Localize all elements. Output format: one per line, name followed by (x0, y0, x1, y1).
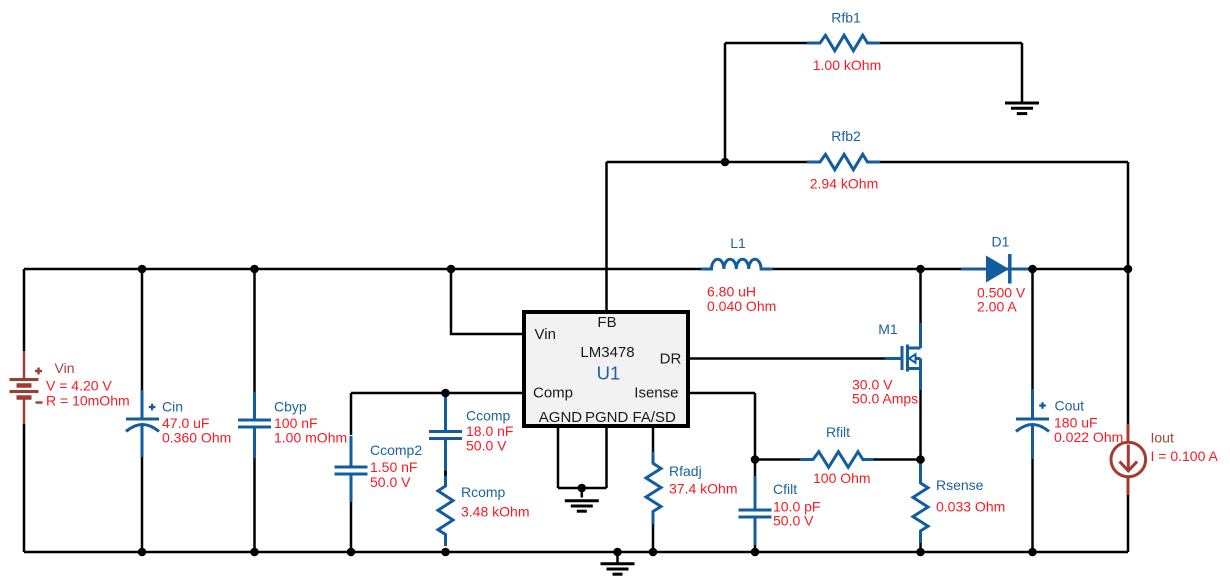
svg-text:Rfb1: Rfb1 (831, 10, 861, 26)
svg-text:0.040 Ohm: 0.040 Ohm (707, 298, 776, 314)
svg-text:Rfb2: Rfb2 (831, 128, 861, 144)
svg-text:DR: DR (660, 351, 682, 368)
svg-text:Rcomp: Rcomp (461, 484, 506, 500)
svg-text:Cbyp: Cbyp (274, 399, 307, 415)
svg-text:1.50 nF: 1.50 nF (370, 459, 417, 475)
svg-text:D1: D1 (992, 234, 1010, 250)
svg-text:3.48 kOhm: 3.48 kOhm (461, 504, 529, 520)
svg-text:PGND: PGND (585, 409, 629, 426)
svg-text:Rfilt: Rfilt (826, 424, 850, 440)
svg-text:0.360 Ohm: 0.360 Ohm (162, 429, 231, 445)
svg-text:U1: U1 (597, 363, 621, 384)
svg-text:Isense: Isense (634, 385, 678, 402)
svg-text:37.4 kOhm: 37.4 kOhm (669, 481, 737, 497)
svg-text:FB: FB (597, 314, 616, 331)
svg-text:Comp: Comp (533, 385, 573, 402)
svg-text:I = 0.100 A: I = 0.100 A (1151, 448, 1219, 464)
svg-text:FA/SD: FA/SD (633, 409, 677, 426)
svg-text:50.0 V: 50.0 V (773, 513, 814, 529)
svg-text:Ccomp: Ccomp (466, 408, 511, 424)
svg-text:50.0 V: 50.0 V (370, 474, 411, 490)
svg-text:Vin: Vin (535, 326, 556, 343)
svg-text:AGND: AGND (539, 409, 583, 426)
svg-text:L1: L1 (730, 235, 746, 251)
svg-text:Rsense: Rsense (936, 477, 984, 493)
svg-text:50.0 V: 50.0 V (466, 437, 507, 453)
svg-text:1.00 mOhm: 1.00 mOhm (274, 429, 347, 445)
svg-text:Vin: Vin (55, 360, 75, 376)
svg-text:50.0 Amps: 50.0 Amps (852, 391, 918, 407)
svg-text:Cfilt: Cfilt (773, 481, 797, 497)
svg-text:0.033 Ohm: 0.033 Ohm (936, 498, 1005, 514)
svg-text:LM3478: LM3478 (580, 344, 634, 361)
svg-text:Cin: Cin (162, 399, 183, 415)
svg-text:1.00 kOhm: 1.00 kOhm (813, 57, 881, 73)
svg-text:2.94 kOhm: 2.94 kOhm (810, 176, 878, 192)
svg-text:2.00 A: 2.00 A (977, 299, 1017, 315)
svg-text:V = 4.20 V: V = 4.20 V (46, 378, 112, 394)
svg-text:Iout: Iout (1151, 430, 1174, 446)
svg-text:Rfadj: Rfadj (669, 463, 702, 479)
svg-text:M1: M1 (878, 321, 898, 337)
svg-text:Ccomp2: Ccomp2 (370, 442, 422, 458)
svg-text:0.022 Ohm: 0.022 Ohm (1054, 429, 1123, 445)
svg-text:Cout: Cout (1055, 398, 1085, 414)
svg-text:100 Ohm: 100 Ohm (813, 470, 871, 486)
svg-text:R = 10mOhm: R = 10mOhm (46, 393, 130, 409)
